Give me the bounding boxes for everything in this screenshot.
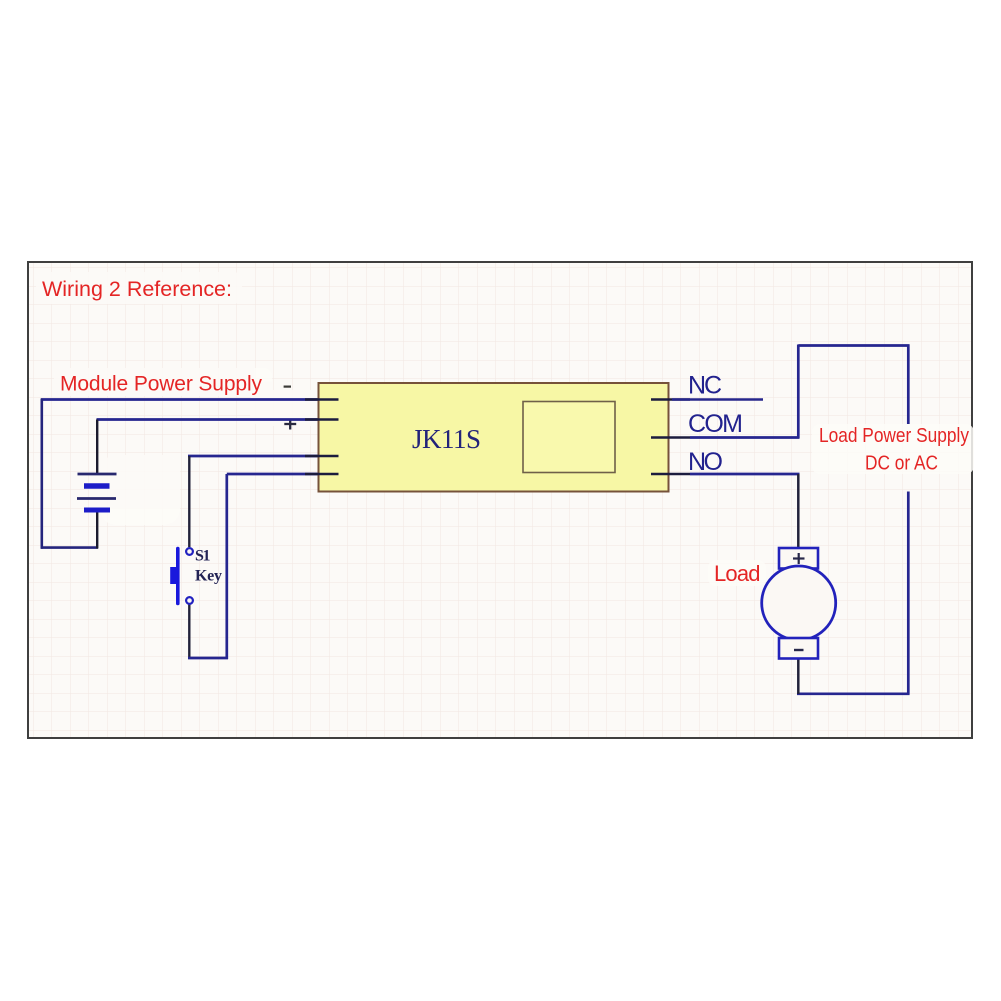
wire: NO horizontal — [690, 473, 800, 476]
schematic sheet — [28, 262, 972, 738]
wire: vertical return to module pin 4 — [225, 474, 228, 659]
pin NC (module right) — [651, 398, 690, 401]
load motor symbol — [762, 548, 836, 659]
svg-text:NO: NO — [688, 448, 723, 476]
wire: load top pin vertical — [797, 474, 800, 549]
pin NO (module right) — [651, 473, 690, 476]
label: plus sign of module supply — [284, 419, 296, 430]
pin 2 (module left, plus) — [305, 418, 339, 421]
wire: switch loop bottom horizontal — [188, 657, 228, 660]
battery BT1 — [77, 474, 117, 510]
faint halos (photo artifacts) — [36, 272, 974, 586]
svg-text:Key: Key — [195, 568, 222, 585]
svg-text:Module Power Supply: Module Power Supply — [60, 373, 263, 396]
wire: NC stub — [672, 398, 763, 401]
svg-text:S1: S1 — [195, 548, 211, 565]
relay inner rectangle — [523, 402, 615, 473]
wire: load loop right vertical lower — [907, 492, 910, 695]
module JK11S body — [319, 383, 669, 492]
wire: plus feed horizontal — [97, 418, 321, 421]
wire: load bottom pin vertical — [797, 658, 800, 694]
wire: pin4 feed horizontal — [227, 473, 320, 476]
wire: battery bottom stem — [96, 511, 98, 549]
pin 4 (module left, key return) — [305, 473, 339, 476]
svg-text:COM: COM — [688, 410, 743, 438]
switch S1 — [170, 548, 193, 604]
wire: COM vertical up — [797, 345, 800, 439]
svg-text:DC or AC: DC or AC — [865, 452, 938, 475]
label: minus sign of module supply — [284, 386, 291, 388]
pin 3 (module left, key) — [305, 455, 339, 458]
wire: switch feed horizontal — [188, 455, 320, 458]
pin COM (module right) — [651, 436, 690, 439]
wire: module minus feed (top horizontal) — [41, 398, 320, 401]
wire: vertical into switch top — [188, 456, 190, 547]
wire: battery top stem — [96, 420, 98, 475]
wire: load loop bottom horizontal — [797, 692, 910, 695]
svg-text:Wiring 2 Reference:: Wiring 2 Reference: — [42, 277, 232, 301]
pin 1 (module left, minus) — [305, 398, 339, 401]
wire: vertical from switch bottom — [188, 605, 190, 660]
wire: COM horizontal — [690, 436, 800, 439]
svg-text:NC: NC — [688, 372, 722, 400]
load plus sign — [793, 553, 805, 564]
wire: load loop right vertical upper — [907, 345, 910, 425]
svg-text:Load Power Supply: Load Power Supply — [819, 424, 970, 447]
load minus sign — [794, 649, 804, 651]
wire: load loop top horizontal — [798, 344, 909, 347]
svg-text:Load: Load — [714, 561, 761, 586]
svg-text:JK11S: JK11S — [412, 424, 481, 454]
wire: bottom horizontal to battery negative — [41, 546, 98, 549]
wire: left vertical from minus wire down — [40, 399, 43, 549]
